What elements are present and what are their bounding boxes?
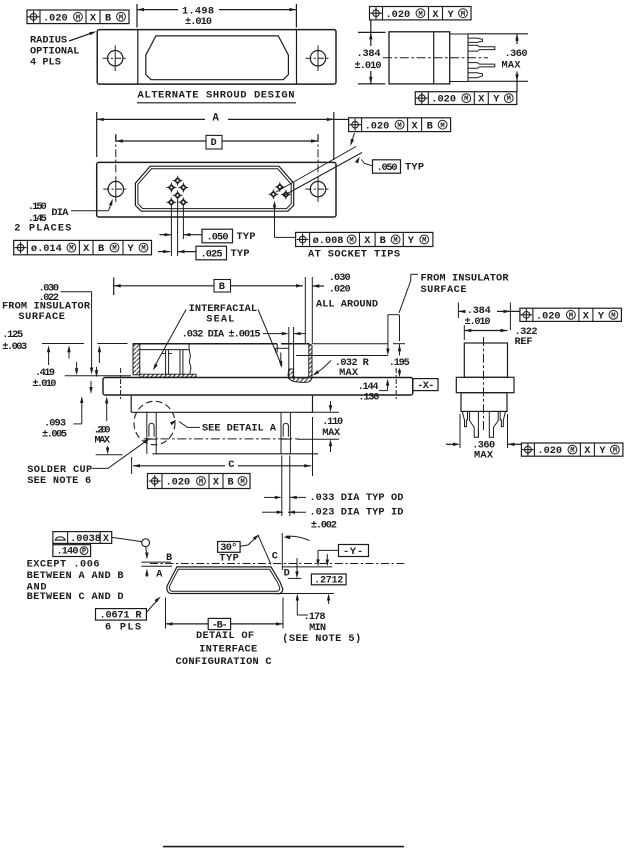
dimension D between hole centers bbox=[116, 135, 318, 149]
svg-text:B: B bbox=[98, 243, 104, 255]
svg-text:M: M bbox=[349, 237, 353, 245]
dimension .030 .020 ALL AROUND bbox=[305, 272, 378, 344]
socket cup hatched wall and bottom bbox=[288, 344, 312, 383]
svg-text:ALTERNATE SHROUD DESIGN: ALTERNATE SHROUD DESIGN bbox=[138, 89, 295, 101]
svg-text:DIA: DIA bbox=[51, 207, 69, 219]
svg-text:M: M bbox=[119, 14, 123, 22]
shroud wall left hatched block bbox=[133, 344, 140, 375]
svg-text:(SEE NOTE 5): (SEE NOTE 5) bbox=[282, 633, 361, 645]
svg-text:B: B bbox=[228, 477, 234, 489]
dimension 1.498 ±.010 with extension lines bbox=[137, 4, 296, 28]
svg-text:ø.014: ø.014 bbox=[31, 243, 62, 255]
label EXCEPT .006 BETWEEN A AND B AND BETWEEN C AND D bbox=[27, 558, 124, 603]
dimension .110 MAX bbox=[297, 401, 343, 452]
shroud outline rectangle bbox=[97, 30, 336, 85]
svg-text:REF: REF bbox=[515, 336, 533, 348]
svg-text:M: M bbox=[440, 122, 444, 130]
svg-text:Y: Y bbox=[128, 243, 135, 255]
socket contacts right cluster bbox=[269, 182, 291, 199]
svg-text:CONFIGURATION C: CONFIGURATION C bbox=[176, 656, 272, 668]
svg-text:MAX: MAX bbox=[474, 450, 494, 462]
label SOLDER CUP SEE NOTE 6 with leader bbox=[27, 438, 150, 487]
shroud mounting hole right bbox=[306, 45, 331, 71]
interfacial seal right leader bbox=[258, 310, 282, 369]
dimension .125 ±.003 left bbox=[2, 329, 101, 375]
svg-text:.030: .030 bbox=[329, 272, 351, 284]
corner label C bbox=[272, 550, 278, 562]
bottom edge extension line bbox=[280, 593, 334, 595]
tolerance box .140 (P) bbox=[53, 545, 91, 558]
svg-text:.125: .125 bbox=[2, 329, 23, 341]
feature control frame: profile .0038 X bbox=[53, 532, 112, 546]
svg-text:C: C bbox=[228, 459, 234, 471]
label .150 .145 DIA 2 PLACES with leader bbox=[14, 199, 113, 235]
end view pin 2 (inner left) bbox=[470, 411, 479, 437]
svg-text:.0671 R: .0671 R bbox=[100, 610, 143, 622]
svg-text:Y: Y bbox=[599, 445, 606, 457]
svg-text:±.010: ±.010 bbox=[465, 316, 491, 328]
svg-text:M: M bbox=[76, 14, 80, 22]
dimension .178 MIN (SEE NOTE 5) bbox=[282, 594, 361, 646]
dimension .360 MAX of end view bbox=[446, 414, 521, 462]
svg-text:.032 DIA ±.0015: .032 DIA ±.0015 bbox=[182, 328, 261, 340]
svg-text:.2712: .2712 bbox=[314, 575, 343, 586]
svg-text:M: M bbox=[611, 312, 615, 320]
socket cup step shelf bbox=[276, 348, 289, 352]
zone arrow below bbox=[145, 569, 148, 577]
socket cup left wall bbox=[277, 344, 281, 366]
label .030 .022 FROM INSULATOR SURFACE with leader bbox=[2, 283, 93, 375]
right mounting hole centerline in section bbox=[395, 368, 397, 399]
svg-text:M: M bbox=[393, 237, 397, 245]
feature control frame: position .020 (M) X Y (M) [end view top] bbox=[520, 308, 622, 322]
end view upper body bbox=[464, 343, 507, 377]
dimension .025 TYP lower with boxed label bbox=[158, 246, 250, 261]
svg-text:SOLDER CUP: SOLDER CUP bbox=[27, 464, 92, 476]
solder cup wire extension lines bbox=[282, 456, 290, 517]
side view pin D bbox=[468, 73, 483, 78]
dimension .023 DIA TYP ID ±.002 bbox=[262, 506, 403, 531]
svg-text:TYP: TYP bbox=[231, 248, 250, 260]
corner label B bbox=[166, 552, 172, 564]
feature control frame: position .020 (M) X B (M) [upper left] bbox=[27, 10, 129, 24]
svg-text:Y: Y bbox=[598, 310, 605, 322]
contact extension lines below face view bbox=[171, 200, 183, 256]
svg-text:D: D bbox=[211, 137, 217, 149]
dimension A overall width bbox=[97, 112, 349, 160]
label RADIUS OPTIONAL 4 PLS with leader bbox=[30, 31, 97, 68]
svg-text:M: M bbox=[507, 96, 511, 104]
svg-text:.020: .020 bbox=[431, 94, 456, 106]
svg-text:MAX: MAX bbox=[95, 434, 111, 446]
label .0671 R 6 PLS with leader bbox=[96, 597, 161, 634]
shroud raised-center step lines bbox=[138, 30, 297, 85]
svg-text:-Y-: -Y- bbox=[343, 546, 363, 558]
dimension .093 ±.005 left bbox=[42, 367, 98, 441]
insulator top edge extension to left bbox=[42, 343, 128, 345]
surface extension line right of detail shape bbox=[282, 566, 332, 568]
svg-text:D: D bbox=[284, 568, 290, 580]
svg-text:.178: .178 bbox=[304, 611, 326, 623]
caption DETAIL OF INTERFACE CONFIGURATION C bbox=[176, 630, 272, 668]
svg-text:X: X bbox=[213, 477, 220, 489]
insulator cavity shelf and slots bbox=[140, 350, 190, 375]
svg-text:X: X bbox=[432, 9, 439, 21]
side view pin C bbox=[468, 63, 495, 69]
svg-text:.020: .020 bbox=[329, 284, 351, 296]
mounting flange in section bbox=[103, 378, 413, 396]
angle 30 degrees TYP boxed label with leader bbox=[218, 534, 260, 564]
svg-text:.384: .384 bbox=[357, 48, 381, 60]
dimension .032 DIA ±.0015 socket bore bbox=[182, 327, 305, 379]
solder cup right tube bbox=[281, 412, 290, 454]
svg-text:.140: .140 bbox=[57, 546, 79, 558]
svg-text:.050: .050 bbox=[377, 162, 398, 174]
solder cup left tube bbox=[147, 412, 156, 454]
svg-text:±.003: ±.003 bbox=[2, 341, 27, 353]
socket contacts left cluster bbox=[166, 176, 188, 208]
svg-text:X: X bbox=[478, 94, 485, 106]
dimension .195 right bbox=[389, 344, 410, 377]
svg-text:.150: .150 bbox=[28, 201, 47, 213]
svg-text:M: M bbox=[141, 245, 145, 253]
svg-text:M: M bbox=[569, 312, 573, 320]
svg-text:DETAIL OF: DETAIL OF bbox=[196, 630, 254, 642]
diagonal extension lines for .050 pitch bbox=[276, 147, 362, 197]
end view lower block bbox=[461, 393, 507, 412]
svg-text:X: X bbox=[103, 533, 110, 545]
svg-text:P: P bbox=[82, 548, 87, 556]
svg-text:4 PLS: 4 PLS bbox=[30, 57, 61, 69]
svg-text:SURFACE: SURFACE bbox=[421, 284, 467, 296]
leader with balloon circle to seal zone bbox=[112, 537, 150, 559]
datum feature symbol -Y- with leader bbox=[316, 545, 368, 567]
svg-text:C: C bbox=[272, 550, 278, 562]
svg-text:.033 DIA TYP OD: .033 DIA TYP OD bbox=[309, 492, 403, 504]
svg-text:M: M bbox=[397, 122, 401, 130]
svg-text:BETWEEN C AND D: BETWEEN C AND D bbox=[27, 591, 124, 603]
chamfer extension line for 30 degree angle bbox=[258, 535, 271, 565]
svg-text:MAX: MAX bbox=[339, 367, 359, 379]
detail interface outer outline bbox=[167, 567, 283, 594]
svg-text:EXCEPT .006: EXCEPT .006 bbox=[27, 558, 100, 570]
caption ALTERNATE SHROUD DESIGN bbox=[137, 89, 296, 103]
svg-text:M: M bbox=[422, 237, 426, 245]
svg-text:M: M bbox=[418, 11, 422, 19]
svg-text:.020: .020 bbox=[386, 9, 411, 21]
svg-text:±.010: ±.010 bbox=[355, 60, 382, 72]
leader from right cluster to FCF at socket tips bbox=[273, 201, 296, 238]
left mounting hole centerline in section bbox=[120, 368, 122, 399]
interfacial seal left leader bbox=[153, 310, 186, 371]
insulator break line (partial section squiggle) bbox=[189, 344, 191, 375]
shroud D-sub opening bbox=[146, 36, 289, 80]
svg-text:B: B bbox=[105, 12, 111, 24]
side view pin shoulder block bbox=[450, 34, 468, 82]
svg-text:X: X bbox=[583, 310, 590, 322]
svg-text:B: B bbox=[380, 235, 386, 247]
corner label A bbox=[156, 568, 163, 580]
svg-text:TYP: TYP bbox=[219, 552, 239, 564]
svg-text:±.010: ±.010 bbox=[32, 378, 56, 390]
svg-text:A: A bbox=[213, 112, 220, 124]
dimension .384 ±.010 of end view bbox=[458, 303, 520, 331]
connector body below flange bbox=[131, 395, 339, 413]
end view flange band bbox=[456, 377, 514, 392]
label SEE DETAIL A with leader bbox=[170, 420, 277, 435]
svg-text:BETWEEN A AND B: BETWEEN A AND B bbox=[27, 570, 124, 582]
svg-text:MAX: MAX bbox=[502, 59, 522, 71]
end view pin 1 (outer left) bbox=[462, 411, 467, 426]
svg-text:.020: .020 bbox=[365, 120, 390, 132]
svg-text:.130: .130 bbox=[358, 392, 379, 404]
svg-text:MAX: MAX bbox=[322, 427, 341, 439]
svg-text:M: M bbox=[464, 96, 468, 104]
dimension .2712 with box bbox=[311, 554, 346, 604]
dimension D zone right bbox=[288, 558, 302, 578]
svg-text:.360: .360 bbox=[505, 48, 528, 60]
svg-text:SEE NOTE 6: SEE NOTE 6 bbox=[27, 475, 91, 487]
insulator bottom extension line left bbox=[65, 375, 131, 377]
svg-text:A: A bbox=[156, 568, 163, 580]
svg-text:B: B bbox=[219, 281, 225, 293]
svg-text:.020: .020 bbox=[536, 310, 561, 322]
svg-text:Y: Y bbox=[408, 235, 415, 247]
svg-text:M: M bbox=[570, 447, 574, 455]
dimension .033 DIA TYP OD bbox=[264, 492, 403, 504]
dimension .360 MAX of side view bbox=[468, 34, 528, 92]
end view centerline bbox=[483, 337, 485, 430]
feature control frame: position .020 (M) X B (M) [right of A dim] bbox=[349, 118, 451, 133]
svg-text:.025: .025 bbox=[201, 249, 223, 261]
feature control frame: position dia .008 (M) X B (M) Y (M) at socket tips bbox=[296, 232, 433, 247]
svg-text:±.010: ±.010 bbox=[185, 16, 212, 28]
side view centerline bbox=[383, 57, 488, 59]
svg-text:.050: .050 bbox=[207, 232, 229, 244]
svg-text:SEE DETAIL A: SEE DETAIL A bbox=[202, 422, 277, 434]
side view pin B bbox=[468, 45, 495, 51]
svg-text:-X-: -X- bbox=[417, 380, 434, 392]
svg-text:ALL AROUND: ALL AROUND bbox=[316, 298, 378, 310]
datum feature symbol -X- bbox=[413, 379, 438, 393]
svg-text:±.002: ±.002 bbox=[311, 519, 337, 531]
side view connector body bbox=[389, 32, 450, 84]
dimension .322 REF of end view bbox=[464, 325, 537, 348]
feature control frame: position dia .014 (M) X B (M) Y (M) bbox=[14, 240, 152, 255]
svg-text:M: M bbox=[69, 245, 73, 253]
svg-text:B: B bbox=[166, 552, 172, 564]
angle arc with arrow bbox=[283, 536, 309, 541]
corner C extension line bbox=[281, 533, 283, 570]
seal tolerance zone double line bbox=[141, 562, 172, 566]
face D-shell inner outline bbox=[138, 169, 291, 209]
shroud mounting hole left bbox=[103, 45, 128, 71]
svg-text:.020: .020 bbox=[43, 12, 68, 24]
svg-text:.020: .020 bbox=[166, 477, 191, 489]
svg-text:M: M bbox=[112, 245, 116, 253]
footer rule line bbox=[163, 846, 404, 848]
dimension -B- of detail bbox=[166, 598, 284, 632]
svg-text:2 PLACES: 2 PLACES bbox=[14, 222, 71, 234]
feature control frame: position .020 (M) X Y (M) [end view bottom] bbox=[521, 443, 623, 457]
face mounting hole right with centerline bbox=[306, 134, 331, 202]
label INTERFACIAL SEAL bbox=[189, 303, 258, 326]
svg-text:.023 DIA TYP ID: .023 DIA TYP ID bbox=[309, 506, 403, 518]
svg-text:X: X bbox=[412, 120, 419, 132]
dimension C bbox=[132, 417, 313, 476]
svg-text:.020: .020 bbox=[537, 445, 562, 457]
svg-text:Y: Y bbox=[493, 94, 500, 106]
svg-text:M: M bbox=[240, 479, 244, 487]
svg-text:INTERFACE: INTERFACE bbox=[199, 643, 257, 655]
svg-text:M: M bbox=[199, 479, 203, 487]
dimension .144 .130 right bbox=[358, 379, 390, 404]
svg-text:X: X bbox=[364, 235, 371, 247]
end view pin 3 (inner right) bbox=[489, 411, 498, 437]
face mounting hole left with centerline bbox=[103, 134, 128, 202]
feature control frame: position .020 (M) X Y (M) [below side view] bbox=[415, 92, 517, 106]
solder cup row centerline bbox=[144, 438, 299, 440]
dimension .384 ±.010 of side view bbox=[355, 20, 386, 84]
interfacial seal surface line right bbox=[296, 355, 388, 357]
leader arrow from FCF to diagonal extension line bbox=[350, 133, 354, 146]
face view outline rectangle bbox=[97, 162, 336, 217]
svg-text:±.005: ±.005 bbox=[42, 429, 67, 441]
dimension B with boxed letter bbox=[114, 278, 303, 296]
svg-text:6 PLS: 6 PLS bbox=[105, 621, 141, 633]
svg-text:X: X bbox=[83, 243, 90, 255]
svg-text:Y: Y bbox=[448, 9, 455, 21]
feature control frame: position .020 (M) X Y (M) [top of side view] bbox=[370, 7, 472, 21]
feature control frame: position .020 (M) X B (M) [below C] bbox=[148, 474, 251, 489]
label .032 R MAX with leader bbox=[313, 357, 370, 379]
svg-text:FROM INSULATOR: FROM INSULATOR bbox=[421, 273, 510, 285]
detail interface inner outline bbox=[169, 569, 279, 591]
label .050 TYP with leader arrow bbox=[355, 157, 424, 175]
interfacial seal hatched strip bbox=[140, 374, 196, 377]
dimension .200 MAX left bbox=[94, 396, 123, 454]
svg-text:M: M bbox=[461, 11, 465, 19]
side view pin A bbox=[468, 38, 483, 42]
svg-text:ø.008: ø.008 bbox=[313, 235, 344, 247]
svg-text:M: M bbox=[613, 447, 617, 455]
dimension .050 TYP lower with boxed label bbox=[160, 229, 256, 244]
label FROM INSULATOR SURFACE right with leader bracket bbox=[386, 273, 509, 356]
svg-text:TYP: TYP bbox=[237, 231, 256, 243]
dashed circle around detail A bbox=[134, 401, 175, 445]
svg-text:TYP: TYP bbox=[405, 161, 424, 173]
svg-text:.093: .093 bbox=[44, 417, 66, 429]
rear face line bbox=[153, 453, 319, 455]
dimension .419 ±.010 left bbox=[32, 345, 92, 394]
svg-text:.0038: .0038 bbox=[70, 533, 101, 545]
svg-text:AT SOCKET TIPS: AT SOCKET TIPS bbox=[308, 248, 400, 260]
svg-text:X: X bbox=[584, 445, 591, 457]
end view pin 4 (outer right) bbox=[500, 411, 505, 426]
svg-text:SURFACE: SURFACE bbox=[18, 311, 65, 323]
svg-text:B: B bbox=[427, 120, 433, 132]
corner label D bbox=[284, 568, 290, 580]
svg-text:.195: .195 bbox=[389, 357, 410, 369]
svg-text:X: X bbox=[90, 12, 97, 24]
face D-shell outer outline bbox=[135, 166, 293, 211]
detail shape centerline bbox=[150, 563, 405, 565]
insulator top edge bbox=[133, 343, 405, 345]
svg-text:SEAL: SEAL bbox=[206, 313, 234, 325]
label AT SOCKET TIPS bbox=[308, 248, 400, 260]
